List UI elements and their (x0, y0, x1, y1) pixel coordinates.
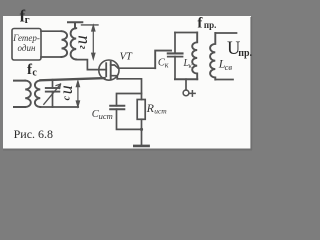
inductor L_к (192, 33, 197, 80)
label C_ист (92, 109, 113, 121)
variable capacitor C1 bottom stub (52, 92, 54, 107)
svg-text:г: г (25, 14, 30, 26)
svg-text:u: u (71, 35, 91, 44)
wire: C_ист bottom to junction (117, 109, 142, 129)
supply stub from tank (185, 79, 187, 90)
svg-text:VT: VT (120, 52, 133, 63)
transformer T2 (input, f_c) primary stubs (14, 81, 25, 107)
label f_пр. (197, 16, 216, 32)
output top stub (215, 32, 236, 34)
VT channel line (110, 62, 112, 80)
supply terminal circle (183, 90, 189, 96)
plus sign (190, 91, 195, 96)
label u_г (rotated) (71, 35, 91, 49)
VT source tap (111, 76, 118, 79)
wire: heterodyne box top output to T1 primary (41, 30, 62, 32)
page background (0, 0, 265, 162)
junction dot (140, 128, 143, 131)
label L_к (183, 58, 193, 70)
wire: heterodyne box bottom output to T1 primary (41, 56, 62, 58)
svg-text:пр.: пр. (204, 20, 216, 30)
tank left branch lower (174, 57, 176, 80)
variable capacitor C1 plates (46, 87, 60, 89)
wire: VT drain to tank (118, 67, 155, 69)
transformer T1 secondary winding (71, 28, 77, 59)
VT drain tap (111, 65, 119, 68)
tank bottom wire (175, 78, 197, 80)
wire: source branch to C_ист (117, 94, 142, 106)
transformer T2 primary winding (25, 81, 31, 107)
label L_св (218, 57, 233, 73)
output bottom stub (215, 79, 233, 81)
svg-text:Гетер-: Гетер- (12, 33, 40, 43)
inductor L_св (210, 33, 215, 80)
tank left branch upper (174, 33, 176, 54)
wire: R_ист bottom to ground (141, 119, 143, 145)
label f_г (20, 6, 30, 26)
wire: drain riser to C_к top (155, 51, 171, 69)
svg-text:ист: ист (99, 111, 113, 121)
svg-text:один: один (18, 43, 36, 53)
capacitor C_к plates (168, 52, 183, 54)
svg-text:пр.: пр. (238, 48, 252, 59)
ground (134, 145, 148, 148)
svg-text:u: u (56, 85, 76, 94)
terminal bar atop T1 secondary (68, 22, 82, 28)
svg-text:c: c (32, 68, 37, 79)
svg-text:г: г (77, 45, 88, 49)
transformer T2 secondary winding (35, 81, 40, 107)
u_c measurement arrow (76, 81, 79, 107)
label u_c (rotated) (56, 85, 76, 100)
transistor VT (dual-gate FET) (99, 60, 119, 80)
wire: T2 secondary top to gate 1 of VT (40, 78, 104, 80)
u_г measurement arrow (92, 25, 95, 58)
tank top wire (175, 32, 197, 34)
wire: T1 secondary bottom to gate 2 of VT (76, 60, 106, 70)
capacitor C_ист plates (110, 105, 124, 107)
wire: VT source to R_ист (117, 79, 141, 100)
svg-text:Рис. 6.8: Рис. 6.8 (14, 127, 53, 141)
label R_ист (146, 101, 168, 115)
svg-text:ист: ист (154, 106, 167, 115)
svg-text:св: св (225, 62, 233, 72)
label C_к (158, 57, 169, 69)
label f_c (27, 62, 37, 79)
transformer T1 primary winding (62, 31, 68, 57)
variable capacitor C1 top stub (52, 80, 54, 88)
label U_пр. (227, 39, 253, 59)
resistor R_ист (137, 100, 145, 120)
wire: T2 secondary bottom (40, 106, 78, 108)
white drawing area (3, 16, 251, 149)
variable capacitor C1 arrow (44, 85, 60, 105)
VT gate electrode bar (105, 63, 107, 76)
svg-text:к: к (165, 60, 169, 69)
wire: reference line for u_г arrow (82, 24, 99, 26)
heterodyne block U1 (гетеродин) (12, 29, 41, 61)
svg-text:c: c (62, 95, 73, 100)
